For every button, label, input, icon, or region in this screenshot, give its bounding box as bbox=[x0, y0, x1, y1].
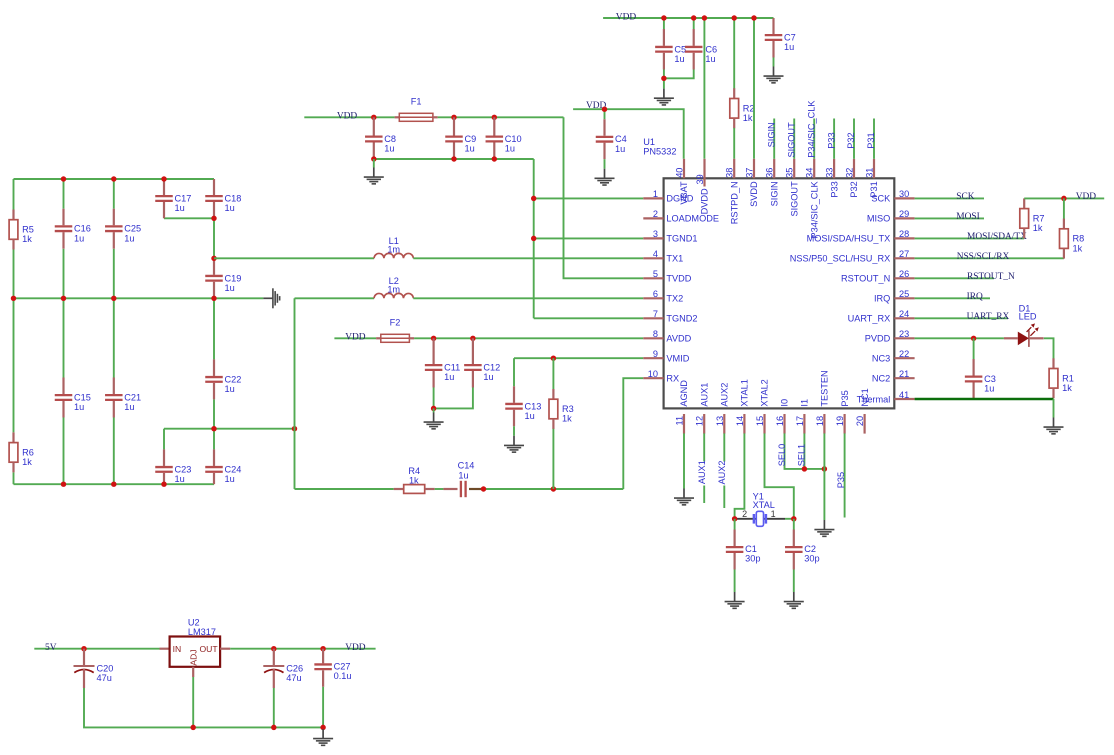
junction bbox=[661, 15, 666, 20]
wire bbox=[113, 179, 115, 209]
svg-text:19: 19 bbox=[835, 416, 845, 426]
junction bbox=[531, 196, 536, 201]
svg-text:C13: C13 bbox=[525, 401, 542, 411]
wire bbox=[434, 388, 473, 409]
wire bbox=[773, 58, 775, 67]
wire (net SIGIN) bbox=[773, 119, 775, 159]
wire bbox=[823, 433, 825, 520]
wire (net P31) bbox=[873, 119, 875, 159]
wire (MOSI) bbox=[915, 217, 984, 219]
capacitor C4 bbox=[596, 119, 627, 159]
junction bbox=[371, 115, 376, 120]
pin 16 I0 bbox=[775, 399, 790, 434]
svg-text:NSS/P50_SCL/HSU_RX: NSS/P50_SCL/HSU_RX bbox=[790, 254, 891, 264]
svg-text:P35: P35 bbox=[836, 472, 846, 488]
pin 29 MISO bbox=[867, 209, 915, 223]
svg-text:IRQ: IRQ bbox=[874, 294, 890, 304]
wire (TX2 net) bbox=[295, 297, 375, 299]
wire (net P34/SIC_CLK) bbox=[813, 119, 815, 159]
svg-text:PVDD: PVDD bbox=[865, 334, 891, 344]
svg-text:24: 24 bbox=[899, 309, 909, 319]
pin 35 SIGOUT bbox=[785, 159, 800, 217]
wire bbox=[793, 570, 795, 593]
capacitor C12 bbox=[464, 338, 500, 387]
wire bbox=[513, 358, 515, 386]
svg-text:34: 34 bbox=[805, 168, 815, 178]
svg-text:1u: 1u bbox=[384, 144, 394, 154]
svg-text:C7: C7 bbox=[784, 33, 796, 43]
wire bbox=[435, 488, 444, 490]
wire (TVDD to pin 5) bbox=[564, 117, 644, 278]
wire bbox=[63, 418, 65, 485]
junction bbox=[531, 236, 536, 241]
wire (VDD to pin 40) bbox=[573, 109, 684, 159]
wire bbox=[273, 688, 275, 727]
svg-text:P34/SIC_CLK: P34/SIC_CLK bbox=[806, 100, 816, 158]
capacitor C26 (polarized) bbox=[263, 649, 303, 688]
wire (VDD to pin 39) bbox=[703, 18, 705, 159]
svg-text:TVDD: TVDD bbox=[666, 274, 691, 284]
wire bbox=[113, 249, 115, 378]
crystal Y1 XTAL bbox=[735, 492, 785, 527]
capacitor C24 bbox=[205, 449, 241, 484]
svg-text:2: 2 bbox=[742, 509, 747, 519]
svg-text:VDD: VDD bbox=[345, 643, 366, 653]
pin 20 NC1 bbox=[855, 388, 870, 433]
pin 19 P35 bbox=[835, 390, 850, 433]
svg-text:23: 23 bbox=[899, 329, 909, 339]
capacitor C5 bbox=[655, 29, 686, 70]
junction bbox=[602, 106, 607, 111]
svg-text:C8: C8 bbox=[384, 134, 396, 144]
junction bbox=[211, 426, 216, 431]
svg-text:XTAL2: XTAL2 bbox=[760, 379, 770, 406]
wire bbox=[13, 472, 15, 484]
pin 10 RX bbox=[643, 369, 679, 383]
wire (SCK) bbox=[915, 197, 984, 199]
wire bbox=[734, 519, 736, 530]
pin 9 VMID bbox=[643, 349, 689, 363]
svg-text:SVDD: SVDD bbox=[749, 181, 759, 207]
ground bbox=[364, 168, 384, 184]
svg-text:OUT: OUT bbox=[199, 644, 218, 654]
capacitor C1 bbox=[726, 530, 761, 570]
net label P33 bbox=[826, 132, 836, 148]
svg-text:1u: 1u bbox=[225, 203, 235, 213]
svg-text:NC3: NC3 bbox=[872, 353, 890, 363]
svg-text:SIGOUT: SIGOUT bbox=[786, 122, 796, 158]
wire (bank middle rail) bbox=[14, 297, 264, 299]
wire (gnd rail) bbox=[84, 688, 323, 727]
junction bbox=[470, 336, 475, 341]
wire (C8-C10 bottom rail) bbox=[374, 158, 534, 160]
net label SEL1 bbox=[796, 444, 806, 466]
svg-text:2: 2 bbox=[653, 209, 658, 219]
capacitor C27 bbox=[314, 649, 351, 687]
ground bbox=[424, 413, 444, 429]
wire (TX1 net) bbox=[214, 257, 374, 259]
svg-text:C5: C5 bbox=[674, 44, 686, 54]
svg-text:1u: 1u bbox=[458, 470, 468, 480]
junction bbox=[61, 296, 66, 301]
svg-text:VDD: VDD bbox=[345, 333, 366, 343]
svg-text:IRQ: IRQ bbox=[967, 292, 983, 302]
svg-text:27: 27 bbox=[899, 249, 909, 259]
net label UART_RX bbox=[967, 312, 1010, 322]
wire (RSTOUT_N) bbox=[915, 277, 994, 279]
capacitor C21 bbox=[105, 378, 141, 418]
wire bbox=[433, 408, 435, 412]
svg-text:MOSI: MOSI bbox=[956, 212, 979, 222]
svg-text:C19: C19 bbox=[225, 273, 242, 283]
pin 12 AUX1 bbox=[695, 383, 710, 434]
capacitor C10 bbox=[486, 117, 522, 159]
capacitor C7 bbox=[765, 18, 796, 58]
junction bbox=[111, 481, 116, 486]
svg-text:R3: R3 bbox=[562, 404, 574, 414]
capacitor C9 bbox=[445, 117, 476, 159]
junction bbox=[551, 486, 556, 491]
wire (TGND2 to pin 7) bbox=[534, 317, 644, 319]
svg-text:AUX2: AUX2 bbox=[717, 460, 727, 484]
svg-text:UART_RX: UART_RX bbox=[967, 312, 1010, 322]
junction bbox=[431, 336, 436, 341]
wire (VDD out) bbox=[230, 648, 375, 650]
wire bbox=[113, 418, 115, 485]
svg-text:MOSI/SDA/TX: MOSI/SDA/TX bbox=[967, 232, 1027, 242]
svg-text:C4: C4 bbox=[615, 134, 627, 144]
svg-text:R6: R6 bbox=[22, 447, 34, 457]
ground (right-facing) bbox=[263, 288, 279, 308]
svg-text:C10: C10 bbox=[505, 134, 522, 144]
junction bbox=[791, 516, 796, 521]
pin 2 LOADMODE bbox=[643, 209, 719, 223]
wire bbox=[663, 78, 665, 88]
svg-text:C17: C17 bbox=[175, 194, 192, 204]
wire (to pin 38) bbox=[733, 128, 735, 159]
junction bbox=[161, 481, 166, 486]
junction bbox=[492, 156, 497, 161]
svg-text:IN: IN bbox=[173, 644, 182, 654]
svg-text:8: 8 bbox=[653, 329, 658, 339]
wire (RX net) bbox=[295, 488, 394, 490]
capacitor C20 (polarized) bbox=[74, 649, 114, 688]
net label IRQ bbox=[967, 292, 983, 302]
pin 28 MOSI/SDA/HSU_TX bbox=[807, 229, 915, 243]
ground bbox=[313, 729, 333, 745]
junction bbox=[190, 725, 195, 730]
svg-text:25: 25 bbox=[899, 289, 909, 299]
wire (TX1 to pin 4) bbox=[413, 257, 643, 259]
capacitor C15 bbox=[55, 378, 91, 418]
svg-text:AUX2: AUX2 bbox=[720, 383, 730, 407]
svg-text:0.1u: 0.1u bbox=[334, 671, 352, 681]
svg-text:38: 38 bbox=[725, 168, 735, 178]
svg-text:C25: C25 bbox=[124, 224, 141, 234]
svg-text:7: 7 bbox=[653, 309, 658, 319]
junction bbox=[551, 355, 556, 360]
svg-text:1k: 1k bbox=[562, 414, 572, 424]
svg-text:P32: P32 bbox=[846, 132, 856, 148]
svg-text:C18: C18 bbox=[225, 194, 242, 204]
svg-text:15: 15 bbox=[755, 416, 765, 426]
svg-text:9: 9 bbox=[653, 349, 658, 359]
resistor R1 bbox=[1049, 358, 1074, 398]
svg-text:TX2: TX2 bbox=[666, 294, 683, 304]
wire bbox=[322, 687, 324, 728]
svg-text:1k: 1k bbox=[22, 457, 32, 467]
wire bbox=[164, 428, 295, 430]
svg-text:16: 16 bbox=[775, 416, 785, 426]
svg-text:20: 20 bbox=[855, 416, 865, 426]
wire bbox=[213, 429, 215, 450]
wire (PVDD) bbox=[915, 337, 1004, 339]
svg-text:26: 26 bbox=[899, 269, 909, 279]
wire (P35) bbox=[844, 433, 846, 517]
svg-text:F2: F2 bbox=[390, 317, 401, 327]
svg-text:1k: 1k bbox=[743, 113, 753, 123]
svg-text:MISO: MISO bbox=[867, 214, 890, 224]
pin 21 NC2 bbox=[872, 369, 915, 383]
wire (5V) bbox=[34, 648, 159, 650]
capacitor C11 bbox=[425, 338, 460, 387]
wire bbox=[213, 399, 215, 428]
svg-text:AGND: AGND bbox=[679, 380, 689, 407]
svg-text:R7: R7 bbox=[1033, 213, 1045, 223]
pin 13 AUX2 bbox=[715, 383, 730, 434]
capacitor C22 bbox=[205, 359, 241, 399]
svg-text:4: 4 bbox=[653, 249, 658, 259]
wire bbox=[1063, 198, 1065, 219]
svg-text:SEL0: SEL0 bbox=[777, 444, 787, 466]
svg-text:C3: C3 bbox=[984, 374, 996, 384]
wire (SEL0/SEL1) bbox=[785, 433, 825, 469]
svg-text:C9: C9 bbox=[465, 134, 477, 144]
svg-text:TGND1: TGND1 bbox=[666, 234, 697, 244]
svg-text:TX1: TX1 bbox=[666, 254, 683, 264]
svg-text:C1: C1 bbox=[745, 544, 757, 554]
wire bbox=[213, 298, 215, 359]
svg-text:36: 36 bbox=[765, 168, 775, 178]
wire bbox=[164, 217, 214, 219]
svg-text:33: 33 bbox=[825, 168, 835, 178]
svg-text:R4: R4 bbox=[408, 466, 420, 476]
capacitor C14 (horizontal) bbox=[443, 461, 483, 498]
svg-text:10: 10 bbox=[648, 369, 658, 379]
svg-text:VDD: VDD bbox=[616, 12, 637, 22]
junction bbox=[61, 176, 66, 181]
svg-text:C22: C22 bbox=[225, 374, 242, 384]
svg-text:40: 40 bbox=[675, 168, 685, 178]
resistor R8 bbox=[1060, 219, 1085, 259]
wire bbox=[13, 179, 15, 210]
svg-text:I1: I1 bbox=[800, 399, 810, 407]
svg-text:XTAL1: XTAL1 bbox=[740, 379, 750, 406]
junction bbox=[481, 486, 486, 491]
IC U1 PN5332 body bbox=[643, 137, 894, 408]
junction bbox=[731, 15, 736, 20]
pin 36 SIGIN bbox=[765, 159, 780, 207]
wire (TGND1 to pin 3) bbox=[534, 237, 644, 239]
junction bbox=[61, 481, 66, 486]
svg-text:P31: P31 bbox=[866, 132, 876, 148]
net label VDD bbox=[586, 101, 607, 111]
svg-text:P34/SIC_CLK: P34/SIC_CLK bbox=[809, 180, 819, 238]
svg-text:5V: 5V bbox=[45, 643, 57, 653]
ground bbox=[504, 436, 524, 452]
ground bbox=[1044, 418, 1064, 434]
capacitor C8 bbox=[365, 117, 396, 159]
wire bbox=[438, 116, 564, 118]
svg-text:21: 21 bbox=[899, 369, 909, 379]
svg-text:1u: 1u bbox=[615, 144, 625, 154]
pin 25 IRQ bbox=[874, 289, 915, 303]
capacitor C6 bbox=[685, 29, 717, 70]
svg-text:41: 41 bbox=[899, 390, 909, 400]
junction bbox=[661, 76, 666, 81]
svg-text:C11: C11 bbox=[444, 363, 460, 373]
wire (bank top rail) bbox=[14, 178, 215, 180]
capacitor C18 bbox=[205, 179, 241, 218]
svg-text:C2: C2 bbox=[804, 544, 816, 554]
junction bbox=[211, 216, 216, 221]
wire (to pin 10) bbox=[623, 378, 643, 489]
ground bbox=[764, 67, 784, 83]
wire bbox=[793, 519, 795, 530]
svg-text:ADJ: ADJ bbox=[189, 649, 199, 665]
svg-text:5: 5 bbox=[653, 269, 658, 279]
svg-text:1k: 1k bbox=[1033, 223, 1043, 233]
pin 31 P31 bbox=[865, 159, 880, 198]
fuse F1 bbox=[395, 97, 438, 122]
svg-text:1u: 1u bbox=[784, 42, 794, 52]
net label VDD bbox=[1076, 192, 1097, 202]
svg-text:1u: 1u bbox=[705, 54, 715, 64]
svg-text:1u: 1u bbox=[525, 411, 535, 421]
junction bbox=[320, 725, 325, 730]
net label VDD bbox=[616, 12, 637, 22]
pin 41 Thermal bbox=[857, 390, 915, 405]
ground bbox=[674, 489, 694, 505]
pin 33 P33 bbox=[825, 159, 840, 198]
wire bbox=[604, 159, 606, 169]
wire bbox=[803, 433, 805, 469]
wire (DGND to pin 1) bbox=[534, 197, 644, 199]
svg-text:1m: 1m bbox=[387, 245, 400, 255]
junction bbox=[11, 296, 16, 301]
junction bbox=[211, 296, 216, 301]
svg-text:1k: 1k bbox=[22, 234, 32, 244]
svg-text:1u: 1u bbox=[225, 474, 235, 484]
net label SIGOUT bbox=[786, 122, 796, 158]
svg-text:NC2: NC2 bbox=[872, 373, 890, 383]
svg-text:14: 14 bbox=[735, 416, 745, 426]
net label P35 bbox=[836, 472, 846, 488]
junction bbox=[802, 466, 807, 471]
svg-text:1u: 1u bbox=[225, 283, 235, 293]
svg-text:SIGIN: SIGIN bbox=[766, 122, 776, 147]
wire (VDD top rail) bbox=[603, 17, 773, 19]
svg-text:18: 18 bbox=[815, 416, 825, 426]
svg-text:NC1: NC1 bbox=[860, 388, 870, 406]
svg-text:C14: C14 bbox=[458, 461, 475, 471]
wire bbox=[734, 570, 736, 593]
net label P34/SIC_CLK bbox=[806, 100, 816, 158]
net label SEL0 bbox=[777, 444, 787, 466]
ground bbox=[725, 592, 745, 608]
net label MOSI/SDA/TX bbox=[967, 232, 1027, 242]
svg-text:R8: R8 bbox=[1073, 234, 1085, 244]
svg-text:SEL1: SEL1 bbox=[796, 444, 806, 466]
svg-text:F1: F1 bbox=[411, 97, 422, 107]
svg-text:1u: 1u bbox=[175, 203, 185, 213]
pin 5 TVDD bbox=[643, 269, 691, 283]
junction bbox=[271, 646, 276, 651]
wire (AUX2) bbox=[723, 433, 725, 508]
capacitor C17 bbox=[155, 179, 191, 218]
wire bbox=[663, 70, 665, 79]
junction bbox=[431, 406, 436, 411]
svg-text:RX: RX bbox=[666, 373, 679, 383]
svg-text:UART_RX: UART_RX bbox=[848, 314, 891, 324]
net label P32 bbox=[846, 132, 856, 148]
wire bbox=[733, 18, 735, 89]
inductor L2 bbox=[374, 276, 413, 298]
pin 40 VBAT bbox=[675, 159, 690, 205]
svg-text:P35: P35 bbox=[840, 390, 850, 406]
svg-text:C12: C12 bbox=[483, 363, 500, 373]
net label P31 bbox=[866, 132, 876, 148]
wire (AGND) bbox=[683, 433, 685, 488]
svg-text:1u: 1u bbox=[483, 372, 493, 382]
pin 39 DVDD bbox=[695, 159, 710, 215]
svg-text:RSTOUT_N: RSTOUT_N bbox=[967, 272, 1015, 282]
wire bbox=[1044, 338, 1054, 358]
svg-text:TESTEN: TESTEN bbox=[820, 370, 830, 406]
svg-text:1u: 1u bbox=[124, 233, 134, 243]
svg-text:SIGIN: SIGIN bbox=[769, 181, 779, 206]
wire (SVDD to pin 37) bbox=[753, 18, 755, 159]
svg-text:R1: R1 bbox=[1062, 373, 1074, 383]
net label VDD bbox=[345, 333, 366, 343]
wire bbox=[213, 218, 215, 258]
svg-text:C26: C26 bbox=[286, 664, 303, 674]
wire bbox=[664, 70, 694, 79]
svg-text:1u: 1u bbox=[505, 144, 515, 154]
wire (net SIGOUT) bbox=[793, 119, 795, 159]
wire bbox=[973, 338, 975, 359]
svg-text:VDD: VDD bbox=[1076, 192, 1097, 202]
svg-text:11: 11 bbox=[675, 416, 685, 426]
svg-text:13: 13 bbox=[715, 416, 725, 426]
svg-text:SIGOUT: SIGOUT bbox=[789, 181, 799, 217]
net label 5V bbox=[45, 643, 57, 653]
pin 23 PVDD bbox=[865, 329, 915, 343]
fuse F2 bbox=[376, 317, 414, 342]
svg-text:LOADMODE: LOADMODE bbox=[666, 214, 719, 224]
svg-text:30p: 30p bbox=[804, 554, 819, 564]
svg-text:C16: C16 bbox=[74, 224, 91, 234]
wire (XTAL1) bbox=[735, 433, 745, 518]
svg-text:3: 3 bbox=[653, 229, 658, 239]
pin 22 NC3 bbox=[872, 349, 915, 363]
svg-text:37: 37 bbox=[745, 168, 755, 178]
svg-text:C27: C27 bbox=[334, 661, 351, 671]
pin 7 TGND2 bbox=[643, 309, 697, 323]
svg-text:1m: 1m bbox=[387, 285, 400, 295]
wire (bank bottom rail) bbox=[14, 483, 215, 485]
junction bbox=[971, 336, 976, 341]
